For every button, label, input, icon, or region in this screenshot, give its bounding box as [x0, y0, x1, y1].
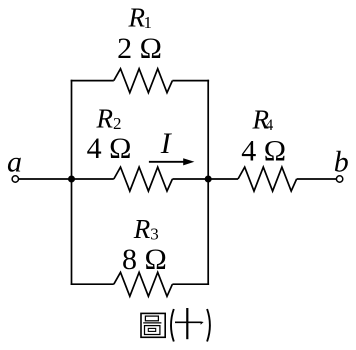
svg-text:R1: R1 — [128, 3, 153, 33]
svg-text:b: b — [334, 146, 349, 179]
svg-text:4 Ω: 4 Ω — [87, 132, 132, 165]
value 2 ohm — [117, 32, 162, 65]
wire R4 to b — [297, 178, 337, 180]
caption right parenthesis — [207, 309, 210, 342]
wire middle-right — [172, 178, 208, 180]
svg-text:2 Ω: 2 Ω — [117, 32, 162, 65]
wire a to node — [19, 178, 114, 180]
value 4 ohm (R2) — [87, 132, 132, 165]
label a — [7, 146, 22, 179]
label R4 — [252, 105, 274, 135]
label I — [160, 127, 173, 160]
wire node to R4 — [208, 178, 238, 180]
label R2 — [96, 104, 122, 134]
resistor R1 — [114, 69, 173, 93]
wire bottom-right horizontal — [172, 283, 209, 285]
caption glyph shi (ten) — [175, 308, 204, 339]
terminal a — [12, 176, 18, 182]
svg-text:a: a — [7, 146, 22, 179]
svg-text:8 Ω: 8 Ω — [122, 243, 167, 276]
resistor R3 — [114, 272, 173, 296]
svg-text:R3: R3 — [133, 214, 159, 244]
svg-text:4 Ω: 4 Ω — [241, 135, 286, 168]
resistor R2 — [114, 167, 173, 191]
node left junction — [68, 176, 75, 183]
terminal b — [336, 176, 342, 182]
current arrow — [149, 158, 195, 165]
wire top-left horizontal — [71, 80, 114, 82]
resistor R4 — [238, 167, 297, 191]
wire bottom-left horizontal — [71, 283, 114, 285]
svg-text:R2: R2 — [96, 104, 122, 134]
wire top-right horizontal — [172, 80, 209, 82]
svg-text:I: I — [160, 127, 173, 160]
value 4 ohm (R4) — [241, 135, 286, 168]
value 8 ohm — [122, 243, 167, 276]
caption left parenthesis — [171, 309, 174, 342]
node right junction — [205, 176, 212, 183]
wire left vertical — [71, 80, 73, 285]
label R1 — [128, 3, 153, 33]
caption glyph tu (figure) — [141, 313, 165, 337]
svg-text:R4: R4 — [252, 105, 274, 135]
label b — [334, 146, 349, 179]
wire right vertical — [207, 80, 209, 285]
label R3 — [133, 214, 159, 244]
